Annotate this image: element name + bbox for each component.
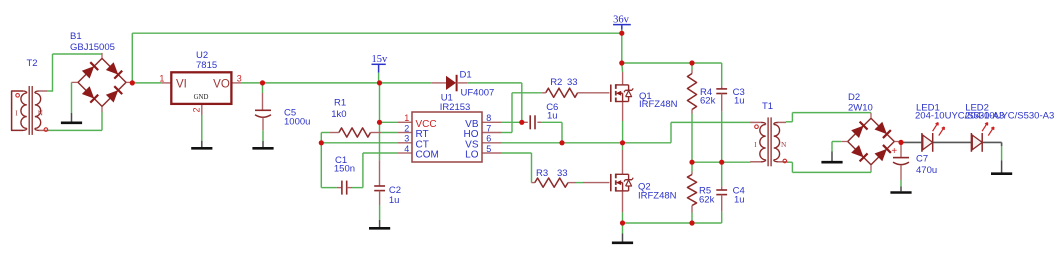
svg-text:470u: 470u [916, 165, 937, 176]
svg-text:2: 2 [192, 107, 202, 112]
svg-text:COM: COM [416, 150, 439, 161]
svg-text:8: 8 [486, 113, 491, 123]
svg-text:1u: 1u [734, 195, 745, 206]
svg-text:R3: R3 [536, 168, 548, 179]
svg-text:VI: VI [176, 78, 187, 90]
svg-text:2W10: 2W10 [848, 103, 873, 114]
svg-text:7815: 7815 [196, 60, 217, 71]
svg-text:5: 5 [486, 144, 491, 154]
svg-text:IR2153: IR2153 [440, 102, 471, 113]
svg-text:33: 33 [557, 168, 568, 179]
svg-text:IRFZ48N: IRFZ48N [639, 99, 678, 110]
svg-text:UF4007: UF4007 [461, 87, 495, 98]
svg-text:1000u: 1000u [284, 116, 310, 127]
svg-text:204-10UYC/S530-A3: 204-10UYC/S530-A3 [965, 111, 1054, 122]
svg-text:VO: VO [213, 78, 230, 90]
svg-text:N: N [781, 140, 787, 149]
svg-text:D1: D1 [460, 69, 472, 80]
svg-text:D2: D2 [848, 92, 860, 103]
svg-text:1u: 1u [547, 110, 558, 121]
svg-text:1: 1 [404, 113, 409, 123]
svg-text:33: 33 [567, 77, 578, 88]
svg-text:36v: 36v [613, 15, 630, 26]
svg-text:1u: 1u [734, 96, 745, 107]
svg-text:3: 3 [237, 74, 242, 84]
svg-text:R1: R1 [334, 98, 346, 109]
svg-text:T2: T2 [27, 58, 38, 69]
svg-text:+: + [891, 146, 897, 157]
svg-text:62k: 62k [699, 195, 715, 206]
svg-text:3: 3 [404, 134, 409, 144]
svg-text:GND: GND [194, 94, 209, 101]
svg-text:15v: 15v [372, 54, 389, 65]
svg-text:4: 4 [404, 144, 409, 154]
svg-text:R2: R2 [550, 77, 562, 88]
svg-text:B1: B1 [70, 31, 82, 42]
svg-text:150n: 150n [334, 164, 355, 175]
svg-text:1: 1 [159, 74, 164, 84]
svg-text:1k0: 1k0 [331, 109, 346, 120]
svg-text:C7: C7 [916, 153, 928, 164]
svg-text:7: 7 [486, 123, 491, 133]
svg-text:IRFZ48N: IRFZ48N [638, 191, 677, 202]
svg-text:LO: LO [465, 150, 479, 161]
svg-text:2: 2 [404, 123, 409, 133]
svg-text:N: N [38, 109, 44, 118]
svg-text:GBJ15005: GBJ15005 [70, 42, 115, 53]
svg-text:1u: 1u [389, 195, 400, 206]
svg-text:62k: 62k [700, 96, 716, 107]
svg-text:6: 6 [486, 134, 491, 144]
svg-text:T1: T1 [762, 101, 773, 112]
